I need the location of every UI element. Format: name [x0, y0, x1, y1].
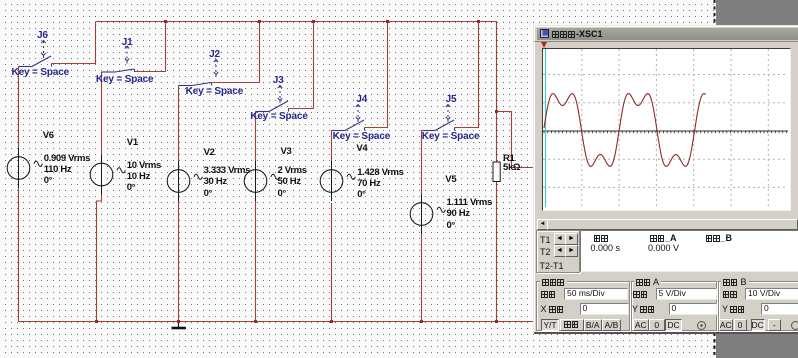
channel A group	[631, 281, 717, 331]
wire bottom bus (ground net)	[19, 321, 534, 323]
sheet boundary (dashed)	[714, 0, 716, 358]
wire J3 output to top bus	[289, 22, 314, 109]
wire V2 to bottom bus	[178, 201, 180, 322]
wire V3 to J3	[255, 112, 257, 162]
label V3 designator	[281, 147, 292, 157]
resistor R1	[493, 162, 500, 182]
label V5 designator	[445, 175, 456, 185]
junction V4 to bottom bus	[330, 320, 333, 323]
label J4 designator	[356, 95, 367, 105]
wire J1 output to top bus	[135, 22, 166, 72]
label J4 key	[333, 132, 391, 142]
label J1 designator	[122, 38, 133, 48]
label V6 designator	[43, 131, 54, 141]
label V1 value	[127, 160, 161, 194]
wire V4 to bottom bus	[331, 203, 333, 322]
AC source V1	[90, 155, 125, 195]
label J3 key	[250, 112, 308, 122]
wire J2 output to top bus	[212, 22, 260, 83]
label J5 key	[422, 132, 480, 142]
label V3 value	[278, 165, 307, 199]
wire R1 to bottom bus	[496, 182, 498, 322]
junction V1 to bottom bus	[95, 320, 98, 323]
label V2 value	[204, 165, 250, 199]
cursor readout panel	[536, 230, 580, 273]
junction R1/scope tap node	[495, 110, 498, 113]
AC source V4	[320, 161, 355, 201]
switch J6	[19, 41, 52, 67]
scope T1 cursor marker	[541, 42, 547, 48]
AC source V3	[244, 161, 279, 201]
junction J2 to top bus	[258, 20, 261, 23]
wire V2 to J2	[178, 86, 180, 162]
label J5 designator	[446, 95, 457, 105]
channel B group	[718, 281, 798, 331]
label V6 value	[44, 153, 90, 187]
wire top bus to R1	[496, 22, 498, 163]
label R1 value	[503, 163, 520, 173]
scope display	[542, 48, 791, 211]
label J6 key	[12, 68, 70, 78]
switch J3	[256, 86, 289, 112]
timebase group	[536, 281, 630, 331]
label J2 designator	[209, 50, 220, 60]
junction V3 to bottom bus	[254, 320, 257, 323]
label J3 designator	[273, 76, 284, 86]
label J2 key	[186, 87, 244, 97]
wire V6 to bottom bus	[18, 188, 20, 322]
switch J1	[102, 46, 135, 72]
AC source V5	[410, 194, 445, 234]
readout values box	[580, 230, 798, 272]
title bar	[537, 28, 798, 40]
scope time axis	[543, 131, 788, 133]
wire V4 to J4	[331, 131, 333, 164]
switch J2	[179, 60, 219, 86]
junction J3 to top bus	[312, 20, 315, 23]
junction J1 to top bus	[164, 20, 167, 23]
label V1 designator	[127, 138, 138, 148]
waveform channel A	[544, 94, 706, 167]
AC source V6	[7, 148, 42, 188]
label V4 value	[357, 167, 403, 201]
wire J6 output to top bus	[52, 22, 96, 64]
wire V3 to bottom bus	[255, 201, 257, 322]
label J6 designator	[37, 31, 48, 41]
wire V1 to J1	[101, 72, 103, 155]
wire top bus	[96, 21, 497, 23]
junction V5 to bottom bus	[420, 320, 423, 323]
junction J5 to top bus	[477, 20, 480, 23]
oscilloscope window XSC1	[533, 25, 798, 334]
wire V1 to bottom bus	[97, 195, 102, 322]
label R1 designator	[503, 154, 515, 164]
junction V2/ground to bottom bus	[177, 320, 180, 323]
scope grid	[543, 49, 788, 207]
wire V5 to J5	[421, 131, 423, 195]
junction J4 to top bus	[386, 20, 389, 23]
wire V6 to J6	[18, 67, 20, 149]
label V2 designator	[204, 148, 215, 158]
wire J5 output to top bus	[455, 22, 479, 128]
wire node to oscilloscope input	[497, 112, 535, 168]
scrollbar	[537, 219, 797, 228]
label J1 key	[96, 75, 154, 85]
wire J4 output to top bus	[365, 22, 388, 128]
AC source V2	[167, 161, 202, 201]
ground	[172, 322, 186, 329]
switch J5	[422, 105, 455, 131]
label V5 value	[447, 197, 492, 231]
window bottom edge	[534, 332, 798, 334]
T1 cursor line	[545, 49, 547, 207]
switch J4	[332, 105, 365, 131]
label V4 designator	[356, 144, 367, 154]
wire V5 to bottom bus	[421, 234, 423, 322]
junction R1 to bottom bus	[495, 320, 498, 323]
